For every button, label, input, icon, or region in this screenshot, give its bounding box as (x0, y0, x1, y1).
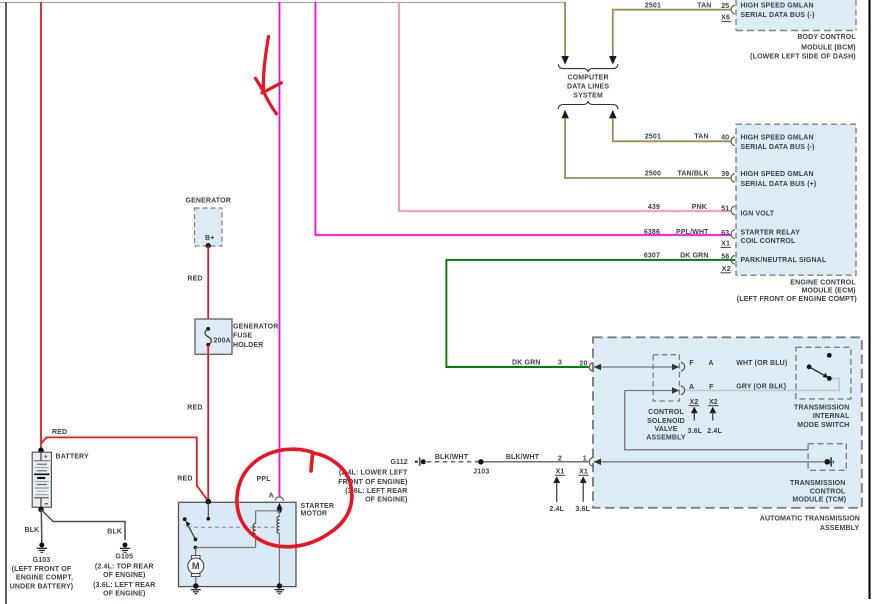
wire row2 inside transmission (625, 390, 679, 392)
generator fuse holder box (195, 319, 232, 354)
arrow down tan2 (609, 56, 617, 65)
mechanical linkage dashed (187, 526, 275, 528)
battery (32, 452, 51, 507)
wire solenoid feed stub (207, 502, 209, 519)
svg-text:(LOWER LEFT SIDE OF DASH): (LOWER LEFT SIDE OF DASH) (750, 53, 856, 60)
svg-text:TRANSMISSION: TRANSMISSION (790, 480, 845, 487)
svg-text:TAN/BLK: TAN/BLK (677, 170, 708, 177)
wire GRY (OR BLK) (686, 378, 840, 390)
node starter ground left (193, 583, 198, 588)
ECM box (736, 124, 856, 275)
svg-text:B+: B+ (205, 235, 214, 242)
svg-text:2.4L: 2.4L (549, 506, 564, 513)
label X2 X2 with underlines (689, 399, 719, 406)
ground G105 (120, 543, 130, 553)
svg-text:A: A (708, 360, 713, 367)
brace upper (558, 64, 618, 72)
svg-text:STARTER RELAY: STARTER RELAY (741, 230, 801, 237)
wire TAN 2501 to ECM pin 40 (613, 118, 731, 141)
arrowhead left row1 (594, 364, 601, 371)
wire BLK/WHT solid to pin 1 (484, 461, 589, 463)
pull-in coil (253, 511, 255, 548)
svg-text:G105: G105 (115, 554, 133, 561)
svg-text:DK GRN: DK GRN (512, 360, 541, 367)
wire motor to ground (195, 577, 197, 586)
arrowhead right row2 (672, 387, 679, 394)
label X2 ECM (721, 266, 732, 273)
wire switch to motor (195, 548, 197, 557)
node generator B+ (206, 243, 211, 248)
pin A starter (275, 497, 284, 501)
svg-text:25: 25 (721, 3, 729, 10)
node switch lower pivot (194, 538, 198, 542)
pin 63 (731, 230, 735, 239)
svg-text:MODULE (TCM): MODULE (TCM) (792, 497, 846, 504)
automatic transmission assembly box (593, 337, 862, 508)
svg-text:UNDER BATTERY): UNDER BATTERY) (10, 584, 74, 591)
svg-text:AUTOMATIC TRANSMISSION: AUTOMATIC TRANSMISSION (760, 515, 860, 522)
node starter ground right (277, 583, 282, 588)
svg-text:OF ENGINE): OF ENGINE) (365, 497, 407, 504)
brace lower (558, 101, 618, 109)
svg-text:GENERATOR: GENERATOR (185, 197, 230, 204)
transmission internal mode switch box (796, 347, 851, 399)
svg-text:40: 40 (721, 134, 729, 141)
pin 1 (589, 458, 593, 467)
svg-text:(LEFT FRONT OF ENGINE COMPT): (LEFT FRONT OF ENGINE COMPT) (737, 296, 857, 303)
svg-text:RED: RED (187, 405, 202, 412)
node solenoid top (277, 508, 282, 513)
svg-text:F: F (689, 360, 694, 367)
control solenoid valve assembly box (653, 355, 679, 401)
ground starter left (191, 590, 201, 594)
svg-text:ENGINE CONTROL: ENGINE CONTROL (790, 279, 856, 286)
CSVA pin A row2 (681, 386, 685, 395)
svg-text:A: A (269, 492, 274, 499)
svg-text:GRY (OR BLK): GRY (OR BLK) (736, 383, 786, 390)
wire TAN 2501 to BCM pin 25 (613, 10, 731, 57)
arrow down tan1 (561, 56, 569, 65)
wire PPL magenta to starter (279, 2, 281, 497)
svg-text:20: 20 (579, 360, 587, 367)
svg-text:BLK/WHT: BLK/WHT (435, 454, 469, 461)
svg-text:MODULE (BCM): MODULE (BCM) (801, 45, 856, 52)
svg-text:HOLDER: HOLDER (233, 342, 263, 349)
svg-text:ASSEMBLY: ASSEMBLY (820, 525, 860, 532)
svg-text:X1: X1 (721, 241, 730, 248)
svg-text:RED: RED (177, 475, 192, 482)
svg-text:3: 3 (558, 360, 562, 367)
svg-text:3.6L: 3.6L (688, 428, 703, 435)
label X1 ECM (721, 241, 731, 248)
node switch output (194, 546, 198, 550)
pin 40 (731, 137, 735, 146)
label X6 (721, 15, 731, 22)
svg-text:G112: G112 (390, 459, 407, 466)
svg-text:200A: 200A (214, 338, 231, 345)
svg-text:(2.4L: LOWER LEFT: (2.4L: LOWER LEFT (339, 470, 408, 477)
svg-text:2500: 2500 (645, 170, 661, 177)
svg-text:X1: X1 (579, 469, 588, 476)
pin 51 (731, 206, 735, 215)
mode switch common contact (807, 364, 812, 369)
svg-text:(2.4L: TOP REAR: (2.4L: TOP REAR (95, 563, 154, 570)
svg-text:TAN: TAN (694, 134, 708, 141)
svg-text:X2: X2 (690, 399, 699, 406)
TCM connector symbol (825, 457, 834, 466)
svg-text:(3.6L: LEFT REAR: (3.6L: LEFT REAR (93, 582, 155, 589)
svg-text:BLK: BLK (107, 528, 122, 535)
svg-text:58: 58 (721, 253, 729, 260)
wire row1 inside transmission (594, 366, 679, 368)
svg-text:HIGH SPEED GMLAN: HIGH SPEED GMLAN (741, 135, 814, 142)
right page border (868, 0, 870, 599)
svg-text:BODY CONTROL: BODY CONTROL (797, 34, 856, 41)
svg-text:PARK/NEUTRAL SIGNAL: PARK/NEUTRAL SIGNAL (741, 257, 827, 264)
solenoid switch lever with arrowhead (186, 521, 196, 540)
arrow up tan4 (609, 110, 617, 119)
svg-text:X1: X1 (556, 469, 565, 476)
svg-text:SOLENOID: SOLENOID (647, 418, 685, 425)
svg-text:51: 51 (721, 205, 729, 212)
motor M (188, 556, 204, 577)
svg-text:OF ENGINE): OF ENGINE) (103, 590, 145, 597)
svg-text:RED: RED (187, 276, 202, 283)
svg-text:SYSTEM: SYSTEM (573, 93, 603, 100)
svg-text:2: 2 (558, 455, 562, 462)
mode switch upper contact (827, 353, 832, 358)
arrow up X1-1 (553, 476, 560, 502)
wire RED horizontal battery branch (41, 437, 208, 501)
svg-text:6307: 6307 (644, 253, 660, 260)
arrow up X2-1 (691, 407, 698, 421)
svg-text:A: A (689, 384, 694, 391)
svg-text:TAN: TAN (697, 3, 711, 10)
wire BLK/WHT dashed from G112 to J103 (427, 461, 480, 463)
svg-text:IGN VOLT: IGN VOLT (741, 210, 775, 217)
node battery positive (38, 448, 44, 454)
svg-text:X2: X2 (709, 399, 718, 406)
svg-text:X2: X2 (722, 266, 731, 273)
node battery negative (38, 507, 44, 513)
svg-text:39: 39 (721, 171, 729, 178)
svg-text:RED: RED (52, 429, 67, 436)
wire TAN 2500 to ECM pin 39 (565, 118, 730, 178)
wire hold-in coil top (256, 510, 280, 512)
svg-text:ASSEMBLY: ASSEMBLY (646, 435, 686, 442)
svg-text:(LEFT FRONT OF: (LEFT FRONT OF (12, 566, 72, 573)
pin 58 (731, 256, 735, 265)
svg-text:2.4L: 2.4L (707, 428, 722, 435)
svg-text:+: + (44, 454, 48, 460)
svg-text:BATTERY: BATTERY (56, 454, 90, 461)
svg-text:2501: 2501 (645, 134, 661, 141)
splice G112 symbol (415, 457, 426, 466)
wire RED fuse to starter (207, 345, 209, 502)
svg-text:MOTOR: MOTOR (301, 510, 328, 517)
label X1 X1 with underlines (555, 469, 589, 476)
hold-in coil (277, 511, 279, 586)
svg-text:HIGH SPEED GMLAN: HIGH SPEED GMLAN (741, 171, 814, 178)
svg-text:DATA LINES: DATA LINES (567, 83, 609, 90)
svg-text:63: 63 (721, 230, 729, 237)
fuse 200A (205, 327, 211, 347)
splice J103 (478, 459, 483, 464)
wire TAN 2501 upper segment (564, 2, 566, 57)
svg-text:OF ENGINE): OF ENGINE) (103, 572, 145, 579)
wire WHT (OR BLU) (686, 366, 809, 368)
svg-text:HIGH SPEED GMLAN: HIGH SPEED GMLAN (741, 3, 814, 10)
svg-text:STARTER: STARTER (301, 503, 335, 510)
svg-text:1: 1 (583, 455, 587, 462)
svg-text:SERIAL DATA BUS (-): SERIAL DATA BUS (-) (741, 12, 815, 19)
svg-text:PPL/WHT: PPL/WHT (676, 229, 709, 236)
TCM box (808, 444, 846, 471)
generator box (195, 208, 223, 246)
svg-text:COIL CONTROL: COIL CONTROL (741, 238, 797, 245)
pin A arrow inside starter (276, 503, 282, 511)
svg-text:VALVE: VALVE (654, 426, 677, 433)
svg-text:MODULE (ECM): MODULE (ECM) (802, 288, 856, 295)
wire RED vertical left (40, 2, 42, 450)
solenoid switch contact (183, 517, 187, 521)
arrowhead left row3 (594, 459, 601, 466)
left page border (5, 2, 7, 604)
CSVA pin F row1 (681, 362, 685, 371)
starter motor box (179, 502, 297, 586)
svg-text:PPL: PPL (257, 476, 272, 483)
svg-text:F: F (709, 384, 714, 391)
svg-text:6386: 6386 (644, 229, 660, 236)
svg-text:TRANSMISSION: TRANSMISSION (794, 405, 849, 412)
svg-text:FUSE: FUSE (233, 333, 252, 340)
svg-text:ENGINE COMPT,: ENGINE COMPT, (16, 575, 73, 582)
svg-text:GENERATOR: GENERATOR (233, 323, 278, 330)
BCM box (736, 0, 856, 31)
svg-text:J103: J103 (473, 468, 489, 475)
wire BLK/WHT row3 inside transmission (594, 461, 826, 463)
svg-text:CONTROL: CONTROL (810, 489, 846, 496)
hand-drawn red circle (237, 449, 352, 547)
wire BLK to G105 (41, 509, 125, 540)
svg-text:DK GRN: DK GRN (680, 253, 709, 260)
svg-text:BLK: BLK (25, 527, 40, 534)
svg-text:X6: X6 (721, 15, 730, 22)
arrow up X2-2 (709, 407, 716, 421)
node red wire into starter (206, 499, 212, 505)
pin 25 (731, 5, 735, 14)
pin 39 (731, 174, 735, 183)
wire BLK to G103 (40, 509, 43, 542)
svg-text:SERIAL DATA BUS (-): SERIAL DATA BUS (-) (741, 144, 815, 151)
top page border (0, 2, 565, 4)
svg-text:COMPUTER: COMPUTER (567, 74, 608, 81)
svg-text:2501: 2501 (645, 3, 661, 10)
arrow up X1-2 (580, 476, 587, 502)
svg-text:MODE SWITCH: MODE SWITCH (797, 422, 849, 429)
wire PPL/WHT magenta to ECM pin 63 (316, 2, 732, 235)
pin 20 (589, 363, 593, 372)
wire RED generator to fuse (207, 246, 209, 329)
wire switch to pull-in coil (196, 547, 256, 549)
svg-text:439: 439 (648, 204, 660, 211)
hand-drawn red arrow (256, 37, 282, 114)
ground starter right (275, 590, 285, 594)
wire PNK to ECM pin 51 (399, 2, 731, 211)
svg-text:WHT (OR BLU): WHT (OR BLU) (736, 360, 787, 367)
svg-text:(3.6L: LEFT REAR: (3.6L: LEFT REAR (345, 488, 407, 495)
mode switch lever (809, 367, 826, 377)
svg-text:M: M (192, 561, 200, 571)
svg-text:G103: G103 (33, 557, 51, 564)
svg-text:BLK/WHT: BLK/WHT (506, 454, 540, 461)
node solenoid switch feed (207, 517, 211, 521)
arrowhead right row1 (672, 364, 679, 371)
svg-text:3.6L: 3.6L (575, 506, 590, 513)
ground G103 (37, 543, 47, 553)
mode switch lower contact (827, 376, 832, 381)
wire DK GRN to transmission pin 20 (446, 260, 735, 367)
arrow up tan3 (561, 110, 569, 119)
svg-text:INTERNAL: INTERNAL (813, 413, 850, 420)
wire CSVA to TCM (625, 391, 808, 450)
svg-text:CONTROL: CONTROL (648, 409, 684, 416)
svg-text:SERIAL DATA BUS (+): SERIAL DATA BUS (+) (741, 181, 817, 188)
svg-text:PNK: PNK (692, 204, 707, 211)
